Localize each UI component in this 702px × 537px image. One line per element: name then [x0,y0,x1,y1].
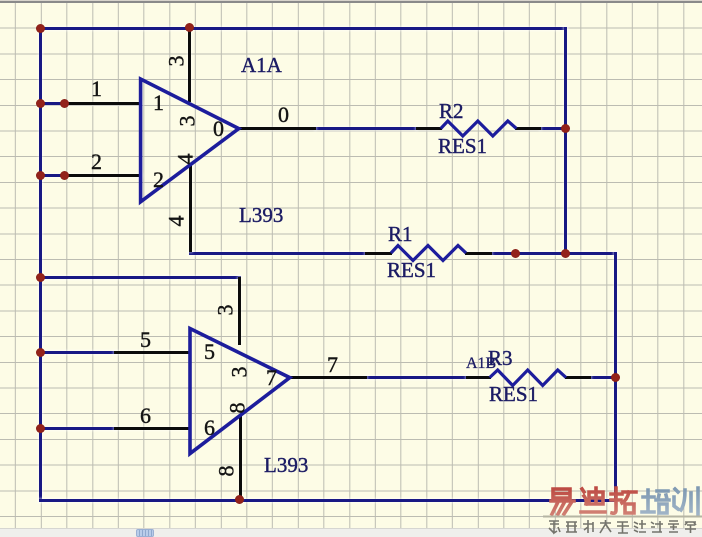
wire right vertical upper [564,27,567,255]
junction pin2 end [60,171,69,180]
wire output7 to R3 [366,376,467,379]
net label 0 [278,104,289,126]
wire stub pin5 [39,351,116,354]
resistor R1 left pin [365,252,392,255]
wm char tuo [611,488,636,513]
wire bottom rail [39,499,617,502]
pin 2 of U1A [64,174,142,177]
pin label 3b top rotated [215,305,237,316]
pin 7 output of U1B [289,376,367,379]
pin 3 of U1B (top) [238,277,241,345]
junction pin8 bottom [235,495,244,504]
pin label 7 inside [266,367,277,389]
bottom scrollbar [0,528,702,537]
wire R2 to junction [540,127,567,130]
junction top-left [36,24,45,33]
junction bus pin2 [36,171,45,180]
wm char di [581,488,605,512]
pin label 5 inside [204,341,215,363]
pin label 0 inside [213,118,224,140]
resistor R3 left pin [466,376,491,379]
junction bus pin1 [36,99,45,108]
wire output0 to R2 [315,127,417,130]
label RES1 of R2 [438,136,487,157]
label A1B [466,356,496,372]
wire right vertical lower [614,252,617,501]
wm char xun [674,488,698,514]
window top edge [0,0,702,3]
resistor R2 left pin [416,127,442,130]
pin 8 of U1B (bottom) [239,415,242,500]
net label 5 [140,329,151,351]
pin 5 of U1B [114,351,191,354]
pin label 4 bottom rotated [165,215,187,226]
junction R2 right [561,124,570,133]
wire bottom section top rail [39,276,241,279]
label R2 [439,101,464,122]
pin label 1 inside [153,92,164,114]
pin label 3b inside rotated [228,367,250,378]
wire left bus [39,27,42,502]
wire stub pin1 [39,102,66,105]
pin label 8 bottom rotated [216,465,238,476]
wire top rail [39,27,567,30]
wm char pei [642,490,669,513]
pin 3 of U1A (top) [188,28,191,102]
label A1A [241,55,282,76]
label RES1 of R3 [489,384,538,405]
pin label 6 inside [204,417,215,439]
wm char yi [551,489,574,514]
wire pin4 to R1 [189,252,367,255]
resistor R2 right pin [515,127,541,130]
label L393 upper [239,205,283,226]
wm tagline [549,520,696,533]
pin 4 of U1A (bottom) [189,165,192,252]
label R1 [388,224,413,245]
pin label 3 top rotated [166,55,188,66]
pin label 4 inside rotated [175,154,197,165]
net label 2 [91,151,102,173]
resistor R1 right pin [465,252,492,255]
junction R1 right A [511,249,520,258]
junction bus pin6 [36,424,45,433]
wire R1 right run [491,252,617,255]
wire stub pin2 [39,174,66,177]
net label 7 [327,354,338,376]
pin 0 output of U1A [238,127,316,130]
pin 1 of U1A [64,102,142,105]
pin label 3 inside rotated [177,115,199,126]
junction pin3 top [185,23,194,32]
junction R1 right B [561,249,570,258]
label R3 [488,348,513,369]
junction bus pin5 [36,348,45,357]
junction R3 right [611,373,620,382]
junction bus bottom rail [36,273,45,282]
wire stub pin6 [39,427,116,430]
pin label 8 inside rotated [226,403,248,414]
net label 1 [91,78,102,100]
pin 6 of U1B [114,427,191,430]
label L393 lower [264,455,308,476]
label RES1 of R1 [387,260,436,281]
wire R3 to junction [590,376,617,379]
watermark logo yiditop [543,485,702,537]
net label 6 [140,405,151,427]
scrollbar thumb [136,529,154,537]
junction pin1 end [60,99,69,108]
wm underline [543,516,702,518]
resistor R3 right pin [565,376,591,379]
pin label 2 inside [153,169,164,191]
